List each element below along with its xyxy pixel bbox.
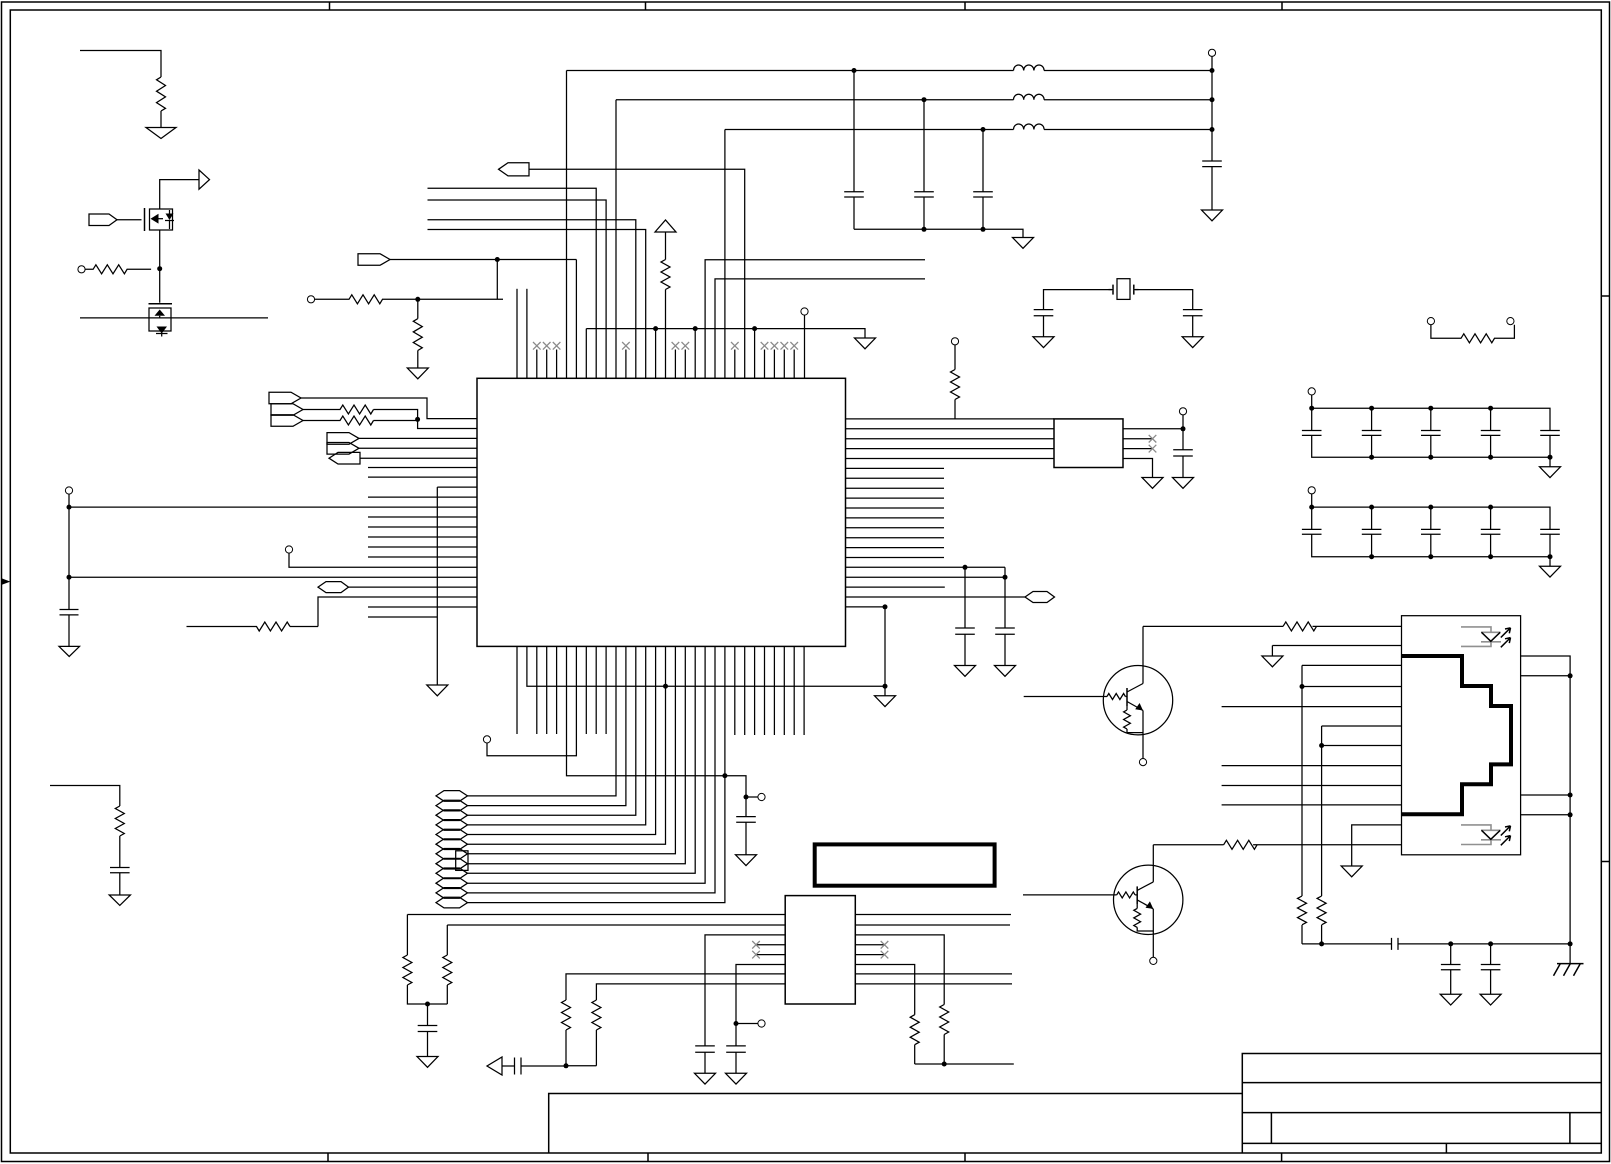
net pointer F7: [436, 849, 468, 860]
wire bottom pin B22 fan12: [468, 646, 725, 902]
wire rail terminal vertical: [1211, 56, 1213, 161]
wire P11 line: [390, 259, 576, 261]
node rail1: [67, 505, 72, 510]
wire bottom pin B3 stub: [536, 646, 538, 734]
node P11 branch: [495, 257, 500, 262]
wire U2 out1 terminal: [1182, 415, 1184, 429]
node bank1 b: [1369, 406, 1374, 411]
wire crystal left: [1044, 290, 1114, 310]
transistor Q3 (P-MOSFET): [145, 208, 175, 231]
border tick right 2: [1601, 861, 1610, 863]
ground G8: [1202, 210, 1223, 221]
capacitor C11: [1173, 450, 1193, 478]
node J1 shield c: [1568, 812, 1573, 817]
capacitor C20: [1481, 529, 1501, 534]
resistor R11: [413, 299, 422, 368]
wire cap gnd bus: [854, 229, 1023, 237]
no-connect pin T4: [543, 342, 551, 378]
ground G11: [955, 666, 976, 677]
ground G12: [995, 666, 1016, 677]
resistor R1: [157, 77, 166, 127]
wire right pin R19: [846, 596, 1026, 598]
border tick bottom 2: [647, 1153, 649, 1162]
capacitor C3: [844, 192, 864, 230]
terminal circle pin T30: [801, 308, 808, 315]
net pointer F6: [436, 839, 468, 850]
wire bottom pin B4 stub: [546, 646, 548, 734]
terminal circle pin L18: [285, 546, 292, 553]
power flag arrow left: [487, 1057, 502, 1075]
wire net2 jog to pin L4: [374, 410, 478, 429]
wire left bus vertical: [436, 487, 438, 685]
node R11 top: [415, 297, 420, 302]
capacitor C23: [418, 1026, 438, 1057]
wire right pin R7 stub: [846, 477, 945, 479]
wire top pin T6 rail A riser: [566, 71, 568, 379]
wire right pin R12 stub: [846, 527, 945, 529]
ground G3: [109, 895, 130, 905]
no-connect pin T18: [682, 342, 690, 378]
wire bottom pin B1 stub: [516, 646, 518, 734]
capacitor C10: [995, 628, 1015, 666]
wire Q1 collector: [1143, 625, 1283, 627]
wire P1 to Q3 gate: [117, 219, 142, 221]
node bob smith c: [1488, 941, 1493, 946]
capacitor C18: [1362, 529, 1382, 534]
node R20 bottom: [942, 1062, 947, 1067]
wire pin L9 stub: [368, 476, 477, 478]
capacitor C26: [1441, 944, 1461, 994]
wire pin L20: [349, 586, 478, 588]
node railC cap: [981, 127, 986, 132]
wire right pin R5: [846, 458, 1055, 460]
resistor R12: [951, 345, 960, 419]
wire Q2 collector: [1153, 844, 1223, 846]
wire U3 R1 stub: [855, 914, 1011, 916]
capacitor C1: [60, 610, 79, 647]
wire J1 pin3: [1302, 664, 1402, 666]
wire J1 right pins loop: [1521, 656, 1571, 944]
node railA cap: [852, 68, 857, 73]
net pointer F3: [436, 810, 468, 821]
resistor R10: [315, 295, 503, 304]
connector J1 contact comb (thick): [1402, 656, 1512, 814]
LED1 in J1: [1461, 627, 1511, 647]
wire pin L11 stub: [368, 496, 477, 498]
wire top pin T2: [526, 289, 528, 379]
terminal circle R10: [307, 296, 314, 303]
ground G20: [695, 1073, 716, 1084]
wire crystal right: [1134, 290, 1193, 310]
node rail2: [67, 575, 72, 580]
resistor R8: [186, 622, 318, 631]
node bob smith d: [1568, 941, 1573, 946]
border tick top 4: [1281, 2, 1283, 10]
node J1 shield b: [1568, 793, 1573, 798]
wire U3 L6 net: [736, 965, 785, 1046]
title block row2 line: [1242, 1112, 1601, 1114]
wire top pin T30: [804, 315, 806, 378]
net pointer F11: [436, 888, 468, 899]
wire rail y577: [69, 576, 477, 578]
IC U3 (regulator): [785, 896, 855, 1004]
wire J1 pin6: [1322, 725, 1402, 727]
capacitor C19: [1421, 529, 1441, 534]
net pointer F4: [436, 820, 468, 831]
net label box fan: [456, 851, 468, 871]
wire rail A: [567, 70, 1213, 72]
wire bank1 bottom bus: [1312, 435, 1550, 466]
wire bottom pin B12 fan2: [468, 646, 626, 805]
node railB right: [1210, 97, 1215, 102]
wire rail y507: [69, 506, 477, 508]
wire C9 riser: [964, 567, 966, 628]
wire right pin R6 stub: [846, 467, 945, 469]
wire bottom pin B28 stub: [773, 646, 775, 735]
terminal circle left rail: [65, 487, 72, 494]
ground G14: [1173, 478, 1194, 489]
wire right pin R9 stub: [846, 497, 945, 499]
wire VIN stub top-left: [80, 51, 161, 78]
node bank2 b: [1369, 505, 1374, 510]
terminal circle B7: [483, 736, 490, 743]
node pin R17: [1003, 575, 1008, 580]
title block divider left: [1270, 1113, 1272, 1144]
net pointer F1: [436, 791, 468, 802]
wire bottom pin B9 stub: [595, 646, 597, 734]
transistor Q4 (N-MOSFET): [149, 304, 173, 337]
wire bottom pin B11 fan1: [468, 646, 617, 796]
node bank1 c: [1428, 406, 1433, 411]
net pointer P9 (hexagon): [318, 582, 349, 593]
border tick top 1: [329, 2, 331, 10]
wire top pin T20 osc stub: [705, 260, 925, 379]
wire stub y617: [368, 616, 437, 618]
node T15: [653, 326, 658, 331]
wire U3 R2 stub: [855, 924, 1010, 926]
wire bottom pin B21 fan11: [468, 646, 716, 893]
node bank2 c: [1428, 505, 1433, 510]
node bob smith a: [1319, 941, 1324, 946]
wire pin L21 jog: [318, 597, 477, 627]
wire top pin T11 rail B riser: [615, 100, 617, 379]
node R18 bottom: [564, 1063, 569, 1068]
LED2 in J1: [1461, 825, 1511, 845]
IC U2 (PHY transformer driver): [1054, 419, 1123, 468]
wire U3 L8 net: [596, 984, 785, 1000]
net pointer P5: [271, 415, 303, 427]
node pin R20: [883, 604, 888, 609]
wire Q3 drain down: [159, 230, 161, 303]
net pointer F9: [436, 868, 468, 879]
capacitor C27: [1481, 944, 1501, 994]
net pointer P6: [327, 433, 359, 445]
wire R18R19 join: [566, 1065, 596, 1067]
title block row3 line: [1242, 1142, 1601, 1144]
wire C10 riser: [1004, 567, 1006, 628]
net pointer P12 (hexagon): [1025, 592, 1055, 603]
no-connect U3 R4: [855, 941, 888, 949]
wire J1 pin9 stub: [1222, 785, 1402, 787]
net pointer P4: [271, 404, 303, 416]
wire bottom pin B31 stub: [803, 646, 805, 735]
no-connect U3 L5: [752, 951, 785, 959]
border tick bottom 4: [1281, 1153, 1283, 1162]
wire C23 riser: [427, 1004, 429, 1026]
wire R21 R20 join stub: [915, 1063, 1014, 1065]
wire bottom pin B15 fan5: [468, 646, 656, 834]
resistor R5: [115, 806, 124, 868]
node J1 pin4: [1300, 684, 1305, 689]
wire pin L22 stub: [368, 606, 477, 608]
wire pin L15 stub: [368, 536, 477, 538]
capacitor C2: [110, 868, 130, 896]
ground G16: [1540, 467, 1561, 478]
net pointer F12: [436, 897, 468, 908]
terminal circle R13 left: [1427, 318, 1434, 325]
capacitor C8: [1183, 310, 1203, 337]
wire J1 pin7: [1322, 745, 1402, 747]
wire bottom pin B29 stub: [783, 646, 785, 735]
wire bottom pin B18 fan8: [468, 646, 686, 863]
resistor R25: [1317, 726, 1326, 944]
wire J1 pin11 LED2: [1352, 825, 1402, 866]
wire bottom pin B7 jog: [487, 646, 576, 755]
terminal circle R12: [951, 338, 958, 345]
wire bottom pin B10 stub: [605, 646, 607, 734]
wire pin L5: [359, 437, 477, 439]
capacitor C7: [1034, 310, 1054, 337]
terminal circle bank2: [1308, 487, 1315, 494]
net pointer P3: [269, 392, 301, 404]
node J1 shield a: [1568, 673, 1573, 678]
wire bank2 bottom bus: [1312, 534, 1550, 566]
node railA right: [1210, 68, 1215, 73]
terminal circle rail top: [1208, 49, 1215, 56]
ground G13: [875, 696, 896, 707]
wire top pin T9 + bundle line1: [428, 188, 597, 378]
wire C11 riser: [1182, 429, 1184, 450]
wire cap C4 riser: [923, 100, 925, 192]
border tick bottom 1: [327, 1153, 329, 1162]
wire J1 pin10 stub: [1222, 804, 1402, 806]
wire right pin R15 stub: [846, 557, 945, 559]
wire bottom pin B14 fan4: [468, 646, 646, 825]
wire top pin T8: [585, 329, 587, 379]
wire power flag stem: [665, 232, 667, 260]
wire U3 R6 net: [855, 965, 914, 1015]
net pointer P7: [327, 443, 359, 455]
revision table box: [549, 1094, 1243, 1154]
capacitor C25: [726, 1046, 746, 1073]
resistor R18: [562, 1000, 571, 1066]
wire right pin R8 stub: [846, 487, 945, 489]
wire bob smith net: [1302, 938, 1570, 950]
resistor R17: [443, 925, 452, 1004]
connector J1 RJ45 body: [1402, 616, 1521, 855]
wire right pin R16: [846, 566, 1006, 568]
resistor R9: [661, 260, 670, 379]
resistor R13: [1431, 325, 1514, 343]
wire R22 to RJ45: [1313, 625, 1402, 627]
wire left rail vertical: [68, 494, 70, 609]
wire J1 pin4: [1302, 686, 1402, 688]
wire right pin R2: [846, 428, 1055, 430]
capacitor C12: [1302, 431, 1322, 436]
resistor R23: [1224, 840, 1257, 849]
wire pin L14 stub: [368, 526, 477, 528]
node bank1 f: [1428, 455, 1433, 460]
wire U2 gnd pin: [1123, 459, 1153, 478]
terminal circle bank1: [1308, 388, 1315, 395]
wire right pin R4: [846, 448, 1055, 450]
wire pin L10 from bus: [437, 486, 477, 488]
no-connect pin T17: [672, 342, 680, 378]
wire cap C3 riser: [853, 71, 855, 192]
ground G18: [736, 855, 757, 866]
wire U3 R3 net: [855, 935, 944, 1005]
wire right pin R20: [846, 606, 886, 608]
ground G19: [417, 1057, 438, 1068]
node bank2 h: [1548, 554, 1553, 559]
node bias crossing: [722, 773, 727, 778]
capacitor C17: [1302, 529, 1322, 534]
wire bottom pin B20 fan10: [468, 646, 706, 883]
capacitor C15: [1481, 431, 1501, 436]
wire top pin T7: [575, 260, 577, 379]
net pointer P11: [358, 254, 390, 266]
no-connect pin T3: [533, 342, 541, 378]
resistor R2: [85, 265, 151, 274]
capacitor C22: [736, 817, 756, 855]
no-connect U2 out2: [1123, 435, 1156, 443]
net pointer F2: [436, 800, 468, 811]
node bus C4: [922, 227, 927, 232]
wire bias terminal stub: [746, 796, 758, 798]
wire AGND line: [586, 329, 865, 338]
wire U2 out1: [1123, 428, 1183, 430]
wire bottom pin B5 stub: [556, 646, 558, 734]
node Q3-Q4 junction: [157, 266, 162, 271]
capacitor C16: [1540, 431, 1560, 436]
inductor L3: [1014, 124, 1045, 130]
wire J1 pin2 LED1 cathode: [1272, 645, 1401, 647]
ground G7: [1013, 238, 1034, 249]
node bias terminal: [744, 795, 749, 800]
node U3 L6 terminal: [734, 1021, 739, 1026]
wire bottom pin B6 bias net: [567, 646, 747, 816]
wire U3 L6 terminal stub: [736, 1023, 758, 1025]
wire pin L17 stub: [368, 556, 477, 558]
inductor L1: [1014, 65, 1045, 71]
wire bottom pin B27 stub: [764, 646, 766, 735]
capacitor C6: [1202, 161, 1222, 210]
wire top pin T24: [529, 169, 745, 378]
wire bottom pin B16 fan6: [468, 646, 666, 844]
wire net3 to node: [374, 420, 418, 422]
wire bank1 top bus: [1312, 395, 1550, 431]
wire right pin R3: [846, 438, 1055, 440]
no-connect pin T28: [781, 342, 789, 378]
ground G24: [1440, 994, 1461, 1005]
node gnd bus B16: [663, 684, 668, 689]
ground G2: [59, 646, 80, 656]
terminal circle Q2 emitter: [1150, 957, 1157, 964]
wire bottom pin B2 + gnd bus: [527, 646, 885, 686]
title block bottom divider: [1445, 1143, 1447, 1153]
wire right pin R11 stub: [846, 517, 945, 519]
terminal circle U2 out1: [1179, 408, 1186, 415]
no-connect pin T12: [622, 342, 630, 378]
node bank2 g: [1488, 554, 1493, 559]
wire bottom pin B30 stub: [793, 646, 795, 735]
wire gnd riser x885: [884, 607, 886, 696]
node net2-net3: [415, 417, 420, 422]
border tick bottom 3: [964, 1153, 966, 1162]
terminal circle U3 L6: [758, 1020, 765, 1027]
wire R23 to RJ45: [1253, 844, 1401, 846]
power flag up arrow: [655, 220, 676, 232]
border tick right 1: [1601, 295, 1610, 297]
wire bank2 top bus: [1312, 494, 1550, 530]
net pointer F5: [436, 829, 468, 840]
resistor R24: [1298, 665, 1307, 944]
no-connect pin T23: [731, 342, 739, 378]
inductor L2: [1014, 94, 1045, 100]
ground G10: [1182, 337, 1203, 348]
wire Q3 source up: [160, 180, 199, 209]
net pointer P8 (left): [329, 452, 360, 464]
wire top pin T15: [655, 329, 657, 379]
wire net1 jog to pin L3: [301, 398, 477, 419]
wire J1 pin8 stub: [1222, 765, 1402, 767]
wire U3 R7 stub: [855, 973, 1012, 975]
title block row1 line: [1242, 1082, 1601, 1084]
resistor R21: [910, 1015, 919, 1064]
capacitor C9: [955, 628, 975, 666]
net pointer F10: [436, 878, 468, 889]
net label box (thick): [815, 844, 995, 885]
chassis ground: [1569, 944, 1571, 964]
wire right pin R18 stub: [846, 586, 945, 588]
wire top pin T21 osc stub: [715, 279, 925, 378]
IC U1 (main QFP): [477, 378, 846, 646]
wire bottom pin B17 fan7: [468, 646, 676, 853]
wire bottom pin B24 stub: [734, 646, 736, 735]
border tick top 3: [964, 2, 966, 10]
wire bottom-left stub: [50, 786, 120, 807]
wire branch down: [496, 260, 498, 300]
ground G4: [427, 685, 448, 696]
wire right pin R1: [846, 418, 1055, 420]
ground G23: [1341, 866, 1362, 877]
node bank2 e: [1369, 554, 1374, 559]
wire top pin T1: [516, 289, 518, 379]
wire pin L7: [360, 457, 477, 459]
resistor R22: [1283, 622, 1316, 631]
border tick top 2: [645, 2, 647, 10]
transistor Q1 (digital NPN): [1024, 626, 1173, 758]
resistor R16: [403, 915, 447, 1005]
wire U3 L3 net: [705, 935, 785, 1046]
node J1 pin7: [1319, 743, 1324, 748]
wire top pin T13 + bundle line3: [428, 220, 636, 378]
wire U3 L1 net: [407, 914, 785, 916]
capacitor C13: [1362, 431, 1382, 436]
wire right pin R13 stub: [846, 537, 945, 539]
no-connect U3 R5: [855, 951, 888, 959]
no-connect U2 out3: [1123, 445, 1156, 453]
